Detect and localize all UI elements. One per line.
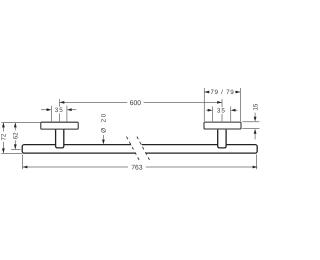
dim 763 arrow left	[23, 166, 28, 169]
svg-text:35: 35	[55, 107, 64, 114]
dim 79/79 line	[204, 91, 210, 93]
svg-text:20: 20	[101, 112, 108, 122]
break line right	[137, 137, 150, 161]
dim 600 arrow left	[60, 101, 65, 104]
svg-text:15: 15	[252, 103, 259, 111]
ext lines 15 dim	[242, 121, 259, 123]
left post stem	[56, 130, 64, 148]
svg-text:600: 600	[130, 100, 142, 107]
right post stem	[218, 130, 226, 148]
extension line bar-bottom left	[1, 152, 22, 154]
dim 79/79 arrow left	[204, 91, 209, 94]
svg-text:763: 763	[131, 164, 143, 171]
dim 72 arrow down	[2, 148, 5, 153]
svg-text:79 / 79: 79 / 79	[210, 89, 234, 96]
dim 72 arrow up	[2, 123, 5, 128]
towel bar body	[22, 145, 257, 154]
svg-text:72: 72	[1, 133, 8, 141]
dim 15 upper arrow	[254, 113, 256, 118]
ext lines above right post	[203, 88, 205, 121]
svg-text:62: 62	[13, 132, 20, 140]
dim 62 arrow down	[14, 144, 17, 149]
break gap white-out	[130, 143, 147, 154]
left wall plate	[41, 122, 78, 129]
dim 79/79 arrow right	[236, 91, 241, 94]
dim dia20 arrow	[102, 135, 104, 141]
right wall plate	[204, 122, 241, 129]
dim 15 lower arrow	[254, 133, 256, 140]
dim 62 line	[14, 123, 16, 130]
dim 763 arrow right	[253, 166, 258, 169]
svg-text:35: 35	[217, 107, 226, 114]
dim 600 line	[60, 101, 128, 103]
dim 62 arrow up	[14, 123, 17, 128]
break line left	[127, 137, 140, 161]
dim 3.5 left arrows	[41, 109, 48, 111]
ext lines 763	[21, 155, 23, 170]
dim 600 arrow right	[217, 101, 222, 104]
svg-text:Ø: Ø	[101, 128, 108, 133]
dim 3.5 right arrows	[206, 109, 208, 111]
extension line plate-top left long	[1, 121, 41, 123]
dim 72 line	[2, 123, 4, 132]
ext lines above left post	[50, 106, 52, 122]
dim 763 line	[23, 166, 128, 168]
extension line bar-center left short	[11, 148, 20, 150]
